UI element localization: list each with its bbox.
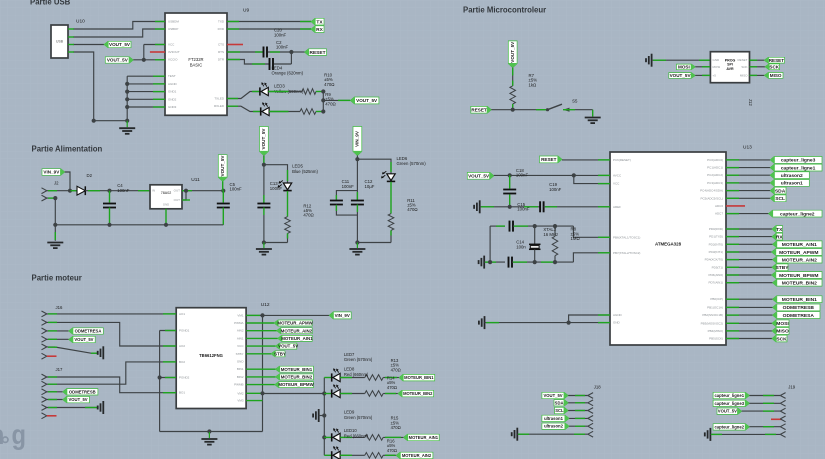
- LED (RXLED): [260, 107, 262, 115]
- svg-text:PGND1: PGND1: [179, 329, 190, 333]
- net label MOTEUR_BIN1 (moteur): [246, 368, 275, 370]
- net label SDA: [726, 190, 770, 192]
- svg-text:MOTEUR_AIN2: MOTEUR_AIN2: [782, 257, 817, 263]
- svg-text:SDA: SDA: [555, 400, 564, 405]
- svg-text:PC5(ADC5/SCL): PC5(ADC5/SCL): [700, 196, 723, 200]
- svg-text:AIN2: AIN2: [237, 329, 244, 333]
- svg-text:ADC6: ADC6: [715, 204, 723, 208]
- svg-text:100nF: 100nF: [549, 187, 562, 192]
- ATMEGA328 chip U13: [610, 152, 726, 345]
- svg-text:capteur_ligne3: capteur_ligne3: [714, 401, 744, 406]
- wire xtal bottom rail 2: [512, 261, 573, 263]
- net label RESET (switch): [471, 106, 492, 113]
- net label capteur_ligne2 (J19): [713, 424, 749, 430]
- svg-text:VCC: VCC: [237, 344, 244, 348]
- wire VIN to J2 node: [65, 172, 70, 191]
- LED5: [283, 183, 291, 190]
- connector J18 pin1: [588, 393, 593, 396]
- net label MISO (J12): [750, 74, 765, 76]
- svg-text:TB6612FNG: TB6612FNG: [199, 353, 223, 358]
- svg-text:ultrason2: ultrason2: [544, 424, 564, 429]
- wire R12 down: [287, 233, 289, 242]
- wire VCC: [143, 45, 145, 60]
- svg-text:USBDP: USBDP: [168, 27, 178, 31]
- wire AREF line: [480, 206, 540, 208]
- net label SCK (ATMEGA): [726, 338, 772, 340]
- resistor R14: [365, 391, 383, 397]
- capacitor C5: [222, 191, 224, 203]
- svg-text:470Ω: 470Ω: [303, 212, 314, 217]
- ground (switch): [585, 117, 601, 119]
- svg-text:PB3(MOSI/OC2): PB3(MOSI/OC2): [701, 321, 723, 325]
- svg-text:100nF: 100nF: [274, 32, 287, 37]
- wire LED7 to R13: [340, 377, 365, 379]
- ground (moteur): [208, 432, 210, 438]
- svg-text:470Ω: 470Ω: [407, 207, 418, 212]
- svg-text:100nF: 100nF: [517, 207, 530, 212]
- net label VIN_9V (input): [42, 169, 65, 176]
- wire LED6 bottom: [357, 242, 391, 244]
- svg-text:VOUT_5V: VOUT_5V: [718, 409, 737, 414]
- connector J17 pin5 to ground: [42, 405, 47, 408]
- svg-text:ODMETRESA: ODMETRESA: [75, 329, 102, 334]
- svg-text:STBY: STBY: [236, 352, 244, 356]
- wire R7 to reset node: [512, 104, 514, 110]
- ground (alim): [47, 242, 63, 244]
- svg-text:Partie USB: Partie USB: [30, 0, 71, 7]
- wire USB pin2 to USBDP: [73, 29, 165, 37]
- U11 ground stem: [165, 209, 167, 225]
- svg-text:MOTEUR_BIN2: MOTEUR_BIN2: [281, 374, 313, 379]
- svg-text:J16: J16: [56, 305, 64, 310]
- net label STBY (ATMEGA): [726, 266, 772, 268]
- wire LED to R10: [269, 111, 300, 113]
- net label TX (ATMEGA): [726, 228, 772, 230]
- svg-text:GND: GND: [713, 58, 721, 62]
- svg-text:VCC: VCC: [613, 182, 620, 186]
- wire R10 to junction: [316, 111, 323, 113]
- connector J19 pin6: [780, 432, 785, 435]
- svg-text:Partie moteur: Partie moteur: [32, 274, 82, 283]
- svg-text:470Ω: 470Ω: [324, 82, 335, 87]
- capacitor C11: [336, 191, 357, 200]
- svg-text:STBY: STBY: [274, 351, 286, 356]
- net label VOUT_5V (USB pin3): [73, 44, 104, 46]
- no-connect 3V3OUT: [150, 51, 165, 53]
- wire LED3 to R9: [268, 91, 302, 93]
- svg-text:VOUT_5V: VOUT_5V: [510, 41, 515, 63]
- svg-text:CTS: CTS: [218, 43, 224, 47]
- net label MOTEUR_AIN1 (moteur): [246, 337, 278, 339]
- wire reset node: [491, 109, 546, 111]
- svg-text:10µF: 10µF: [365, 184, 375, 189]
- wire VM2 to LED column: [263, 393, 325, 395]
- svg-text:+5: +5: [713, 73, 717, 77]
- wire C2 to RESET: [268, 51, 291, 53]
- no-connect ADC6: [726, 205, 745, 207]
- net label MOTEUR_AIN2 (ATMEGA): [726, 259, 773, 261]
- connector J16 pin5 to ground: [42, 344, 47, 347]
- wire LED6 to R11: [390, 182, 392, 214]
- wire TXLED to LED3: [227, 92, 260, 99]
- LED9: [324, 436, 331, 438]
- ground (J17): [102, 401, 104, 414]
- ground (ATMEGA): [484, 316, 486, 329]
- resistor R8: [554, 226, 556, 236]
- svg-text:capteur_ligne3: capteur_ligne3: [781, 158, 816, 164]
- svg-text:ultrason1: ultrason1: [781, 181, 803, 187]
- ground (xtal): [483, 256, 485, 269]
- svg-text:MOTEUR_BIN1: MOTEUR_BIN1: [782, 297, 817, 303]
- resistor R13: [365, 375, 383, 381]
- svg-text:470Ω: 470Ω: [391, 425, 401, 430]
- svg-text:SDA: SDA: [775, 188, 786, 194]
- svg-text:BIN1: BIN1: [237, 367, 244, 371]
- svg-text:TXLED: TXLED: [214, 97, 225, 101]
- svg-text:MOTEUR_AIN1: MOTEUR_AIN1: [281, 336, 313, 341]
- net label ultrason1 (J18): [542, 415, 569, 421]
- svg-text:PB1(OC1A): PB1(OC1A): [707, 305, 723, 309]
- svg-text:ODMETRESA: ODMETRESA: [783, 313, 815, 319]
- net label SCL: [726, 197, 770, 199]
- wire xtal bottom rail: [484, 261, 505, 263]
- resistor R15: [365, 435, 383, 441]
- wire xtal top rail: [490, 225, 505, 227]
- svg-text:VM2: VM2: [237, 391, 244, 395]
- alim bottom rail: [55, 224, 223, 226]
- wire J18 pin6: [517, 433, 588, 435]
- wire R9 to junction: [316, 91, 323, 93]
- net label capteur_ligne3: [726, 159, 770, 161]
- svg-text:100n: 100n: [516, 244, 526, 249]
- svg-text:AO1: AO1: [179, 312, 185, 316]
- wire J19 pin6: [710, 433, 780, 435]
- connector J17 pin3 ODMETRESB: [42, 389, 47, 392]
- net label SCL (J18): [555, 407, 569, 413]
- net label capteur_ligne1 (J19): [713, 392, 749, 398]
- ground (LED5): [263, 243, 265, 249]
- svg-text:AVCC: AVCC: [613, 173, 622, 177]
- svg-text:VIN_9V: VIN_9V: [43, 170, 60, 175]
- svg-text:VOUT_5V: VOUT_5V: [74, 337, 93, 342]
- svg-text:SCL: SCL: [775, 196, 785, 202]
- connector J19 pin2: [780, 400, 785, 403]
- svg-text:GND: GND: [613, 321, 621, 325]
- svg-text:PC1(ADC1): PC1(ADC1): [707, 166, 723, 170]
- svg-text:ADC7: ADC7: [715, 212, 723, 216]
- wire D2 to U11: [85, 190, 150, 192]
- svg-text:PC6(RESET): PC6(RESET): [613, 158, 631, 162]
- wire TXD to TX: [227, 21, 311, 23]
- connector J16 pin2: [42, 320, 47, 323]
- connector J17 pin4 VOUT_5V: [42, 397, 47, 400]
- svg-text:n: n: [0, 419, 5, 450]
- svg-text:S5: S5: [572, 99, 578, 104]
- svg-text:VOUT_5V: VOUT_5V: [356, 98, 378, 103]
- wire DTR to LED4: [227, 60, 270, 65]
- FT232R chip U9: [165, 13, 227, 115]
- svg-text:RXD: RXD: [218, 27, 225, 31]
- svg-text:SCK: SCK: [769, 64, 779, 69]
- net label SDA (J18): [554, 400, 568, 406]
- svg-text:470Ω: 470Ω: [387, 385, 397, 390]
- net label RX: [311, 26, 324, 33]
- svg-text:RESET: RESET: [769, 58, 785, 63]
- svg-text:100nF: 100nF: [117, 188, 130, 193]
- svg-text:MISO: MISO: [776, 329, 789, 335]
- svg-text:STBY: STBY: [775, 265, 789, 271]
- voltage regulator U11: [150, 185, 182, 209]
- svg-text:GND1: GND1: [168, 90, 177, 94]
- capacitor C16: [509, 221, 511, 232]
- svg-text:VOUT_5V: VOUT_5V: [670, 73, 692, 78]
- svg-text:GND: GND: [163, 203, 169, 207]
- svg-text:TXD: TXD: [218, 20, 225, 24]
- svg-text:Green (570nm): Green (570nm): [344, 415, 373, 420]
- crystal XTAL2: [534, 226, 536, 244]
- svg-text:PD1(TXD): PD1(TXD): [709, 235, 723, 239]
- connector J19 pin5: [780, 424, 785, 427]
- svg-text:AVR: AVR: [726, 67, 734, 71]
- svg-text:J18: J18: [594, 384, 602, 389]
- svg-text:MOSI: MOSI: [776, 321, 789, 327]
- ground (AREF line): [479, 200, 481, 213]
- connector J19 pin3: [780, 408, 785, 411]
- net label VOUT_5V (reset pullup): [508, 41, 517, 68]
- connector J18 pin3: [588, 408, 593, 411]
- wire RTS to C2: [227, 51, 264, 53]
- wire AVCC: [494, 174, 610, 176]
- wire VM3: [246, 400, 262, 402]
- svg-text:VOUT_5V: VOUT_5V: [69, 397, 88, 402]
- svg-text:100nF: 100nF: [516, 173, 529, 178]
- svg-text:MOTEUR_AIN2: MOTEUR_AIN2: [281, 328, 313, 333]
- net label MOSI (J12): [677, 64, 696, 70]
- svg-text:VCCIO: VCCIO: [168, 58, 178, 62]
- net label ultrason1: [726, 182, 770, 184]
- svg-text:DTR: DTR: [218, 58, 225, 62]
- svg-text:BASIC: BASIC: [190, 63, 203, 68]
- svg-text:SCK: SCK: [776, 336, 787, 342]
- svg-text:GND3: GND3: [168, 105, 177, 109]
- svg-text:PC2(ADC2): PC2(ADC2): [707, 173, 723, 177]
- no-connect CTS: [227, 44, 243, 46]
- svg-text:VCC: VCC: [168, 43, 175, 47]
- wire gnd to J12: [652, 59, 711, 61]
- svg-text:PC4(ADC4/SDA): PC4(ADC4/SDA): [700, 189, 723, 193]
- svg-text:OUT: OUT: [174, 198, 181, 202]
- svg-text:RX: RX: [316, 27, 323, 33]
- net label MOTEUR_AIN1 (LED): [383, 436, 403, 438]
- net label MOTEUR_APWM (ATMEGA): [726, 251, 772, 253]
- svg-text:Blue (525nm): Blue (525nm): [292, 169, 318, 174]
- svg-text:MISO: MISO: [770, 73, 782, 78]
- connector J17 pin2: [42, 381, 47, 384]
- ground (LED block): [318, 409, 320, 422]
- svg-text:TEST: TEST: [168, 74, 176, 78]
- svg-text:U13: U13: [743, 145, 752, 151]
- svg-text:MISO: MISO: [740, 73, 748, 77]
- TB6612FNG chip U12: [176, 308, 246, 409]
- wire C15 to AREF: [544, 206, 610, 208]
- svg-text:AREF: AREF: [613, 205, 621, 209]
- net label ultrason2: [726, 174, 770, 176]
- connector J16 pin3 ODMETRESA: [42, 328, 47, 331]
- svg-text:1MΩ: 1MΩ: [571, 236, 581, 241]
- svg-text:100nF: 100nF: [270, 186, 283, 191]
- wire USB pin1 to USBDM: [73, 22, 165, 30]
- net label VIN_9V (LED6): [353, 127, 362, 156]
- svg-text:RESET: RESET: [541, 157, 557, 162]
- net label MOTEUR_BIN2 (ATMEGA): [726, 282, 773, 284]
- svg-text:BO2: BO2: [179, 360, 185, 364]
- svg-text:RTS: RTS: [218, 50, 224, 54]
- wire RXD to RX: [227, 28, 311, 30]
- svg-text:PWMA: PWMA: [234, 321, 243, 325]
- net label MOTEUR_BIN1 (ATMEGA): [726, 298, 773, 300]
- svg-text:MOTEUR_BIN1: MOTEUR_BIN1: [404, 375, 434, 380]
- wire xtal top rail 2: [513, 225, 573, 227]
- svg-text:capteur_ligne1: capteur_ligne1: [714, 393, 744, 398]
- net label SCK (J12): [750, 66, 766, 68]
- svg-text:AO2: AO2: [179, 344, 185, 348]
- connector J17 pin6 nc: [42, 413, 47, 416]
- ground (J18): [516, 428, 518, 441]
- svg-text:Green (570nm): Green (570nm): [344, 357, 373, 362]
- USB connector U10: [51, 25, 68, 58]
- svg-text:g: g: [12, 419, 27, 450]
- svg-text:AIN1: AIN1: [237, 336, 244, 340]
- net label VOUT_5V (J12): [669, 73, 696, 79]
- connector J2 pin1: [42, 188, 47, 191]
- svg-text:AGND: AGND: [168, 82, 178, 86]
- PGND bus: [159, 331, 161, 432]
- svg-text:Red (660nm): Red (660nm): [344, 372, 369, 377]
- svg-text:VM1: VM1: [237, 313, 244, 317]
- connector J18 pin6: [588, 431, 593, 434]
- net label VOUT_5V (AVCC): [467, 172, 494, 179]
- moteur ground rail: [160, 431, 263, 433]
- svg-text:PC0(ADC0): PC0(ADC0): [707, 158, 723, 162]
- connector J18 pin5: [588, 423, 593, 426]
- svg-text:Green (570nm): Green (570nm): [397, 161, 427, 166]
- svg-text:PD7(AIN1): PD7(AIN1): [708, 281, 723, 285]
- svg-text:470Ω: 470Ω: [325, 101, 336, 106]
- svg-text:MOSI: MOSI: [678, 65, 690, 70]
- wire AGND branch: [569, 315, 610, 323]
- net label VOUT_5V (alim): [218, 155, 227, 182]
- switch S5: [546, 108, 549, 111]
- wire to PB7: [573, 253, 610, 262]
- wire VCC branch: [574, 175, 610, 183]
- net label MOTEUR_BIN1 (LED): [383, 377, 399, 379]
- net label MOTEUR_BPMW: [246, 384, 275, 386]
- wire LED10 to R16: [340, 454, 365, 456]
- net label MOTEUR_APMW: [246, 322, 274, 324]
- net label ODMETRESB (ATMEGA): [726, 306, 773, 308]
- net label capteur_ligne2: [726, 213, 769, 215]
- resistor R11: [388, 214, 394, 231]
- wire VOUT to branch: [263, 156, 265, 165]
- svg-text:IN: IN: [152, 189, 155, 193]
- wire branch to LED5: [264, 165, 288, 183]
- PROG SPI AVR header J12: [710, 52, 749, 83]
- svg-text:LED6: LED6: [397, 156, 408, 161]
- svg-text:100nF: 100nF: [342, 184, 355, 189]
- svg-text:MOTEUR_AIN1: MOTEUR_AIN1: [782, 242, 817, 248]
- net label RESET: [305, 49, 327, 56]
- connector J2 pin2: [42, 195, 47, 198]
- capacitor C13: [263, 165, 265, 203]
- connector J19 pin1: [780, 393, 785, 396]
- wire switch to ground: [575, 109, 593, 111]
- svg-text:PD0(RXD): PD0(RXD): [709, 227, 723, 231]
- LED7: [324, 377, 331, 379]
- svg-text:PB6(XTAL1/TOSC1): PB6(XTAL1/TOSC1): [613, 235, 640, 239]
- svg-text:MOTEUR_BPMW: MOTEUR_BPMW: [278, 382, 314, 387]
- net label TX: [311, 18, 324, 25]
- wire USB pin4 to ground bus: [73, 52, 127, 121]
- svg-text:Orange (620nm): Orange (620nm): [272, 71, 304, 76]
- svg-text:U10: U10: [76, 19, 85, 25]
- svg-text:AGND: AGND: [613, 313, 623, 317]
- svg-text:470Ω: 470Ω: [391, 367, 401, 372]
- svg-text:MOTEUR_BIN2: MOTEUR_BIN2: [782, 280, 817, 286]
- svg-text:PB0(ICP): PB0(ICP): [710, 297, 723, 301]
- wire RXLED to LED10b: [227, 106, 261, 111]
- resistor R10: [300, 109, 316, 115]
- capacitor LED4: [269, 58, 271, 70]
- svg-text:16 MHz: 16 MHz: [543, 232, 558, 237]
- wire U11 out2: [182, 191, 186, 200]
- wire LED5 to R12: [287, 191, 289, 217]
- capacitor C18: [509, 175, 511, 188]
- svg-text:ODMETRESB: ODMETRESB: [69, 389, 96, 394]
- net label RESET (ATMEGA): [540, 156, 563, 163]
- net label MOTEUR_AIN2 (LED): [383, 454, 396, 456]
- svg-text:MOTEUR_APWM: MOTEUR_APWM: [779, 250, 818, 256]
- svg-text:LED5: LED5: [292, 164, 303, 169]
- svg-text:100nF: 100nF: [276, 45, 289, 50]
- diode D2: [77, 186, 85, 195]
- net label RX (ATMEGA): [726, 236, 772, 238]
- svg-text:TX: TX: [776, 227, 783, 233]
- svg-text:PD6(AIN0): PD6(AIN0): [708, 273, 723, 277]
- net label RESET (J12): [750, 59, 765, 61]
- svg-text:PB4(MISO): PB4(MISO): [708, 329, 723, 333]
- svg-text:MOTEUR_BIN1: MOTEUR_BIN1: [281, 367, 313, 372]
- svg-text:1kΩ: 1kΩ: [529, 82, 538, 87]
- net label VOUT_5V (moteur): [246, 345, 275, 347]
- svg-text:PC3(ADC3): PC3(ADC3): [707, 181, 723, 185]
- net label ultrason2 (J18): [542, 423, 569, 429]
- capacitor C15: [539, 201, 541, 212]
- svg-text:ATMEGA328: ATMEGA328: [655, 242, 682, 247]
- svg-text:USBDM: USBDM: [168, 20, 179, 24]
- svg-text:BIN2: BIN2: [237, 375, 244, 379]
- svg-text:OUT: OUT: [174, 189, 181, 193]
- LED column: [323, 378, 325, 456]
- svg-text:J17: J17: [56, 367, 64, 372]
- ground (LED6): [356, 243, 358, 249]
- net label MOTEUR_BIN2 (moteur): [246, 376, 275, 378]
- svg-text:J19: J19: [788, 384, 796, 389]
- capacitor C4: [109, 191, 111, 203]
- svg-text:VM3: VM3: [237, 399, 244, 403]
- wire VM2: [246, 392, 262, 394]
- svg-text:J12: J12: [748, 99, 753, 107]
- net label VOUT_5V (J18): [542, 392, 568, 398]
